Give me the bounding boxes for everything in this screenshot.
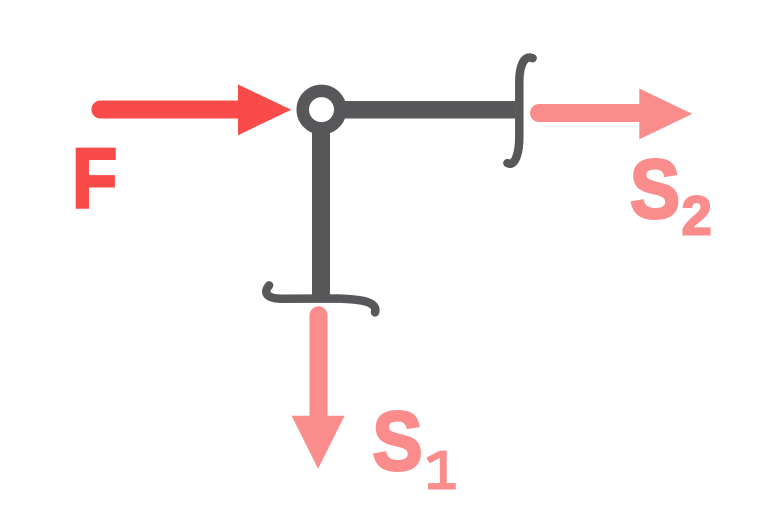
svg-text:S: S (630, 142, 680, 236)
member: horizontal bar (322, 101, 516, 119)
member: vertical bar (312, 110, 330, 301)
force arrow F shaft (100, 101, 240, 119)
label S1 : subscript 1 (custom glyph with base serif) (426, 451, 455, 490)
section force arrow S2 shaft (539, 104, 641, 122)
svg-text:F: F (72, 132, 117, 226)
section force arrow S1 head (292, 416, 345, 469)
force arrow F head (238, 84, 291, 135)
cut mark for S2 (vertical integral sign) (507, 58, 532, 164)
svg-text:2: 2 (682, 186, 712, 247)
cut mark for S1 (horizontal integral sign) (266, 285, 375, 312)
svg-text:S: S (373, 393, 423, 487)
node: pin joint circle (303, 91, 341, 129)
section force arrow S2 head (639, 89, 692, 140)
section force arrow S1 shaft (310, 315, 328, 417)
